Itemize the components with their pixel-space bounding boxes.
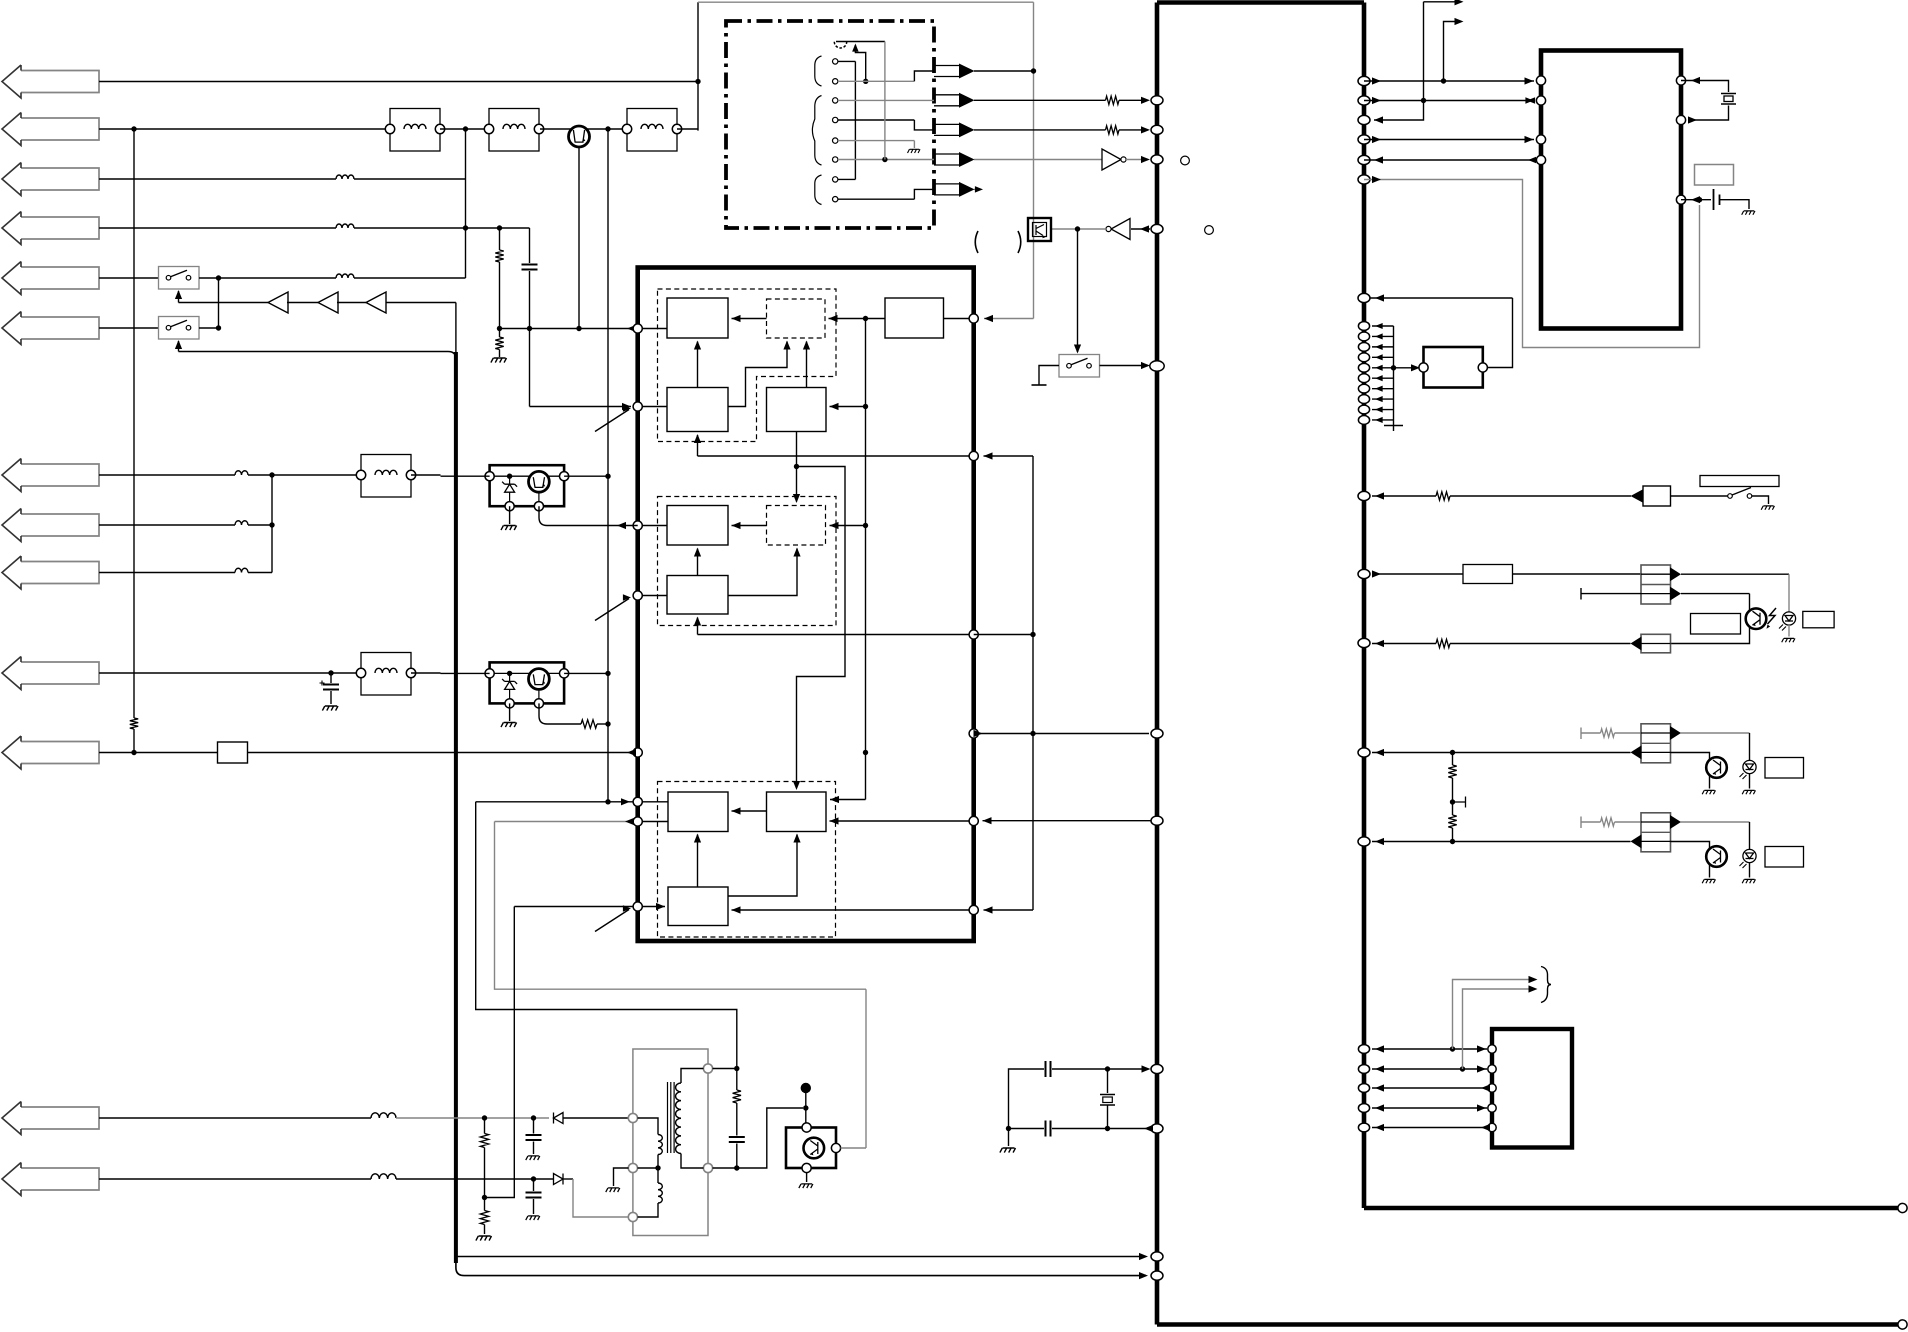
wire: [396, 1117, 549, 1119]
wire thick control bus: [454, 352, 458, 1263]
connector arrow J2: [2, 113, 99, 146]
pin U1 stack: [1358, 405, 1369, 414]
wire B4a bottom: [796, 432, 798, 467]
stub wire: [1372, 409, 1394, 411]
pin CN4: [1488, 1104, 1496, 1112]
junction: [1441, 78, 1446, 83]
ground: [1000, 1148, 1016, 1153]
ground: [1742, 790, 1755, 794]
arrowhead: [1141, 156, 1150, 163]
connector CN2 arrow out B: [1670, 587, 1681, 601]
transistor D5: [1706, 846, 1727, 867]
transistor block TR1 zener diode: [502, 482, 517, 493]
wire mute: [1372, 495, 1436, 497]
wire: [248, 474, 361, 476]
arrowhead into B3a: [694, 434, 701, 443]
wire mech pin2: [838, 80, 915, 82]
wire Q10 drop: [578, 147, 580, 329]
wire: [386, 302, 456, 304]
arrowhead: [1525, 77, 1534, 84]
arrowhead: [1375, 417, 1383, 423]
resistor R7: [1436, 639, 1450, 647]
tick: [1453, 797, 1466, 808]
block B3c: [668, 887, 728, 926]
wire: [677, 128, 698, 130]
connector D5 divider: [1641, 831, 1671, 833]
wire: [529, 271, 531, 329]
transistor D4: [1706, 757, 1727, 778]
connector arrow J11: [2, 736, 99, 769]
arrowhead: [974, 730, 983, 737]
wire: [736, 1144, 738, 1169]
wire stub: [975, 188, 980, 190]
pin U1-8: [1358, 569, 1370, 578]
wire: [354, 178, 466, 180]
wire gray top bus: [698, 1, 1034, 3]
arrowhead: [694, 548, 701, 557]
arrowhead: [1375, 344, 1383, 350]
inductor L5: [336, 274, 354, 278]
inductor L8: [235, 521, 248, 525]
wire B3c->B1c: [697, 835, 699, 888]
crystal X1: [1721, 94, 1736, 105]
pin U1-39: [1358, 96, 1370, 105]
pin U1-11: [1358, 837, 1370, 846]
wire: [133, 729, 135, 753]
transistor block TR1 body: [490, 465, 564, 506]
pin TR3 e: [802, 1163, 811, 1172]
wire from pin: [1131, 228, 1150, 230]
wire P8->B3c: [638, 906, 665, 908]
junction: [1697, 197, 1702, 202]
wire mech pin5: [838, 140, 915, 142]
ground: [1742, 211, 1755, 215]
pin FB2 in: [1419, 363, 1428, 372]
wire: [1100, 365, 1149, 367]
filter FL5: [361, 653, 411, 696]
wire P6->B1c: [638, 801, 668, 803]
wire net A4: [99, 227, 336, 229]
tick: [1580, 588, 1582, 600]
wire TR2->x608: [564, 672, 608, 674]
pin U1-2: [1151, 125, 1163, 134]
wire net A11: [99, 752, 218, 754]
wire Q4->U1: [974, 733, 1149, 735]
connector arrow J9: [2, 556, 99, 589]
connector D4 arrow out: [1670, 726, 1681, 740]
arrowhead: [793, 834, 800, 843]
transistor block TR1 junction: [507, 474, 512, 479]
arrowhead SW1 control: [175, 290, 182, 299]
wire: [484, 1225, 486, 1235]
wire SW2 control: [178, 341, 180, 352]
transistor block TR2 transistor: [529, 669, 550, 690]
stub wire: [1372, 419, 1394, 421]
wire B3c->B2c: [728, 835, 797, 897]
wire step to out1: [914, 71, 934, 81]
arrowhead at P5: [627, 749, 636, 756]
wire mech pin1: [838, 60, 856, 62]
arrowhead: [830, 796, 839, 803]
filter FL2 terminal: [534, 124, 543, 133]
pin FB2 out: [1478, 363, 1487, 372]
switch SW4: [1728, 494, 1733, 499]
arrowhead: [1527, 97, 1535, 103]
junction: [863, 79, 868, 84]
wire primary b: [638, 1203, 659, 1217]
filter FL3 terminal: [622, 124, 631, 133]
wire P4->B3b: [638, 595, 667, 597]
pin P6: [633, 797, 642, 806]
resistor R5: [1106, 126, 1120, 134]
pin CN4: [1488, 1123, 1496, 1131]
pin P7: [633, 817, 642, 826]
wire: [1720, 200, 1750, 209]
wire D5 sense: [1372, 841, 1631, 843]
wire: [697, 435, 699, 456]
connector D5 arrow in: [1631, 834, 1642, 848]
pin P8: [633, 902, 642, 911]
wire: [354, 277, 466, 279]
capacitor C2 (polar): [323, 685, 339, 690]
pin U1 stack: [1358, 363, 1369, 372]
pin Q4: [969, 729, 978, 738]
wire to Q2: [984, 455, 1034, 457]
pin U1 stack: [1358, 322, 1369, 331]
arrowhead into IC pin: [1139, 1272, 1148, 1279]
wire: [597, 723, 608, 725]
wire B3a->B2a staircase: [728, 342, 787, 407]
filter FL3 terminal: [672, 124, 681, 133]
wire: [499, 329, 501, 338]
capacitor C3: [1714, 189, 1720, 210]
arrowhead at P1: [627, 325, 636, 332]
transistor block TR2 wire: [509, 689, 511, 703]
IC U6: [1541, 51, 1681, 329]
junction: [1075, 226, 1080, 231]
wire net A2: [99, 128, 390, 130]
wire staircase A: [797, 467, 846, 789]
transistor block TR2 internal rail: [490, 672, 564, 674]
mech pin: [833, 79, 838, 84]
arrowhead stub: [975, 186, 983, 192]
mech pin: [833, 157, 838, 162]
arrowhead: [1375, 333, 1383, 339]
wire: [396, 1178, 554, 1180]
junction: [328, 670, 333, 675]
wire P7 net: [495, 821, 634, 823]
junction: [1105, 1126, 1110, 1131]
LED D4: [1740, 760, 1757, 779]
pin U6-4: [1536, 155, 1545, 164]
junction: [216, 325, 221, 330]
inverter U5: [1111, 219, 1130, 240]
arrowhead: [1375, 354, 1383, 360]
wire: [248, 572, 272, 574]
block B3b: [667, 576, 728, 615]
arrowhead: [1141, 97, 1150, 104]
filter FL1 terminal: [435, 124, 444, 133]
arrowhead at P7: [625, 818, 634, 825]
block B1b: [667, 506, 728, 546]
wire P7->B1c: [638, 821, 668, 823]
wire net A1: [99, 81, 698, 83]
mech pin: [833, 117, 838, 122]
junction: [1030, 632, 1035, 637]
wire xtal b: [1692, 106, 1729, 121]
resistor D4: [1601, 729, 1615, 737]
pin U6-2: [1536, 96, 1545, 105]
wire: [411, 474, 441, 476]
junction: [1105, 1066, 1110, 1071]
wire switch tie: [218, 278, 220, 328]
arrowhead: [1691, 77, 1700, 84]
mech pin: [833, 177, 838, 182]
arrowhead: [1375, 294, 1384, 301]
arrowhead: [1529, 976, 1538, 983]
wire to transistor: [1671, 842, 1710, 878]
arrowhead: [1375, 396, 1383, 402]
mechanism block (cassette deck): [726, 21, 934, 228]
wire base: [841, 1147, 867, 1149]
pin U1 bottom stack: [1358, 1084, 1369, 1093]
switch SW3 contacts: [1067, 363, 1072, 368]
wire: [1788, 625, 1790, 637]
wire P8 net: [514, 906, 633, 908]
wire P6 net: [476, 801, 633, 803]
arrowhead: [1375, 323, 1383, 329]
connector D5 body: [1641, 813, 1671, 852]
pin U1-10: [1358, 748, 1370, 757]
capacitor C5: [1046, 1121, 1051, 1137]
buffer U3a: [268, 292, 288, 313]
junction: [882, 157, 887, 162]
wire bus x1033: [1032, 456, 1034, 910]
pin U1-21: [1151, 729, 1163, 738]
arrowhead: [1144, 1125, 1153, 1132]
switch SW1 contacts: [166, 275, 171, 280]
wire B5a->B2a: [829, 318, 886, 320]
wire bus x608: [607, 129, 609, 802]
transformer pin: [703, 1064, 712, 1073]
arrowhead: [984, 452, 993, 459]
paren mark: [1018, 231, 1021, 253]
wire: [287, 302, 318, 304]
arrowhead: [803, 341, 810, 350]
component box FB1: [218, 742, 248, 763]
buffer U3c: [366, 292, 386, 313]
arrowhead: [830, 522, 839, 529]
wire mech pin3: [838, 99, 934, 101]
pin U6-5: [1676, 195, 1685, 204]
wire D4 drive: [1581, 732, 1601, 734]
ground: [1702, 790, 1715, 794]
pin U1 stack: [1358, 374, 1369, 383]
pin U1-38: [1358, 115, 1370, 124]
switch SW1 body: [159, 267, 200, 290]
wire lamp A: [1372, 573, 1463, 575]
wire Q2 run: [698, 455, 974, 457]
wire into P2: [530, 406, 632, 408]
ground: [526, 1216, 540, 1220]
connector arrow J6: [2, 312, 99, 345]
wire bus B: [865, 319, 867, 800]
crystal X2: [1100, 1095, 1115, 1106]
transistor block TR3: [786, 1128, 836, 1169]
connector D5 through wire: [1641, 840, 1671, 842]
transistor Q5: [804, 1138, 825, 1159]
arrowhead: [1481, 1084, 1490, 1091]
wire fb loop side: [1488, 298, 1513, 368]
filter FL4: [361, 455, 411, 498]
pin U1 bottom stack: [1358, 1065, 1369, 1074]
wire control drop: [455, 303, 457, 353]
block B4a: [767, 388, 827, 432]
inductor L7: [235, 471, 248, 475]
wire: [913, 141, 915, 148]
connector D4 divider: [1641, 742, 1671, 744]
pin U1-7: [1358, 491, 1370, 500]
pin U1-26: [1151, 1271, 1163, 1280]
wire step to out3: [914, 120, 934, 130]
arrowhead: [1375, 365, 1383, 371]
wire net A7: [99, 474, 235, 476]
resistor R8: [1448, 765, 1456, 778]
transformer pin: [703, 1163, 712, 1172]
arrowhead: [783, 341, 790, 350]
mech output arrow: [934, 184, 959, 195]
label box: [1695, 165, 1734, 186]
wire: [1450, 643, 1631, 645]
photo interrupter PH1: [1028, 218, 1051, 241]
junction: [269, 472, 274, 477]
arrowhead: [1375, 1084, 1384, 1091]
adjust arrow shaft: [595, 910, 629, 932]
transistor block TR2 junction: [507, 671, 512, 676]
connector tab in: [1631, 489, 1644, 502]
wire TR2 resistor run: [539, 703, 581, 724]
wire to Q6: [984, 909, 1034, 911]
pin U1 bottom stack: [1358, 1104, 1369, 1113]
capacitor C4: [1046, 1061, 1051, 1077]
junction mech out 1: [1031, 68, 1036, 73]
block B1a: [667, 298, 728, 338]
wire: [411, 672, 441, 674]
pin rail B end: [1898, 1320, 1907, 1329]
connector D4 through wire: [1641, 732, 1671, 734]
wire: [1126, 159, 1148, 161]
brace group3: [815, 175, 822, 205]
arrowhead: [1528, 157, 1536, 163]
wire step to out5: [914, 189, 934, 199]
arrowhead: [1375, 749, 1384, 756]
wire U1->IC2 c: [1364, 100, 1534, 102]
tick: [1580, 728, 1582, 740]
inductor L12: [371, 1113, 396, 1118]
junction: [1460, 1066, 1465, 1071]
wire T1 out: [713, 1108, 804, 1168]
wire: [330, 673, 332, 683]
resistor R9: [1448, 815, 1456, 828]
transistor Q10 (in-line): [569, 126, 590, 147]
resistor R6: [1436, 492, 1450, 500]
junction: [527, 326, 532, 331]
wire B4a->B2a: [806, 342, 808, 388]
transistor block TR1 pin: [560, 472, 569, 481]
transistor block TR1 transistor: [529, 471, 550, 492]
wire net to IC: [456, 1256, 1146, 1258]
filter FL5 coil: [375, 668, 397, 673]
wire gray drop x1033: [1033, 2, 1035, 318]
wire busB->B2b: [830, 525, 866, 527]
arrowhead: [694, 341, 701, 350]
filter FL4 terminal: [406, 470, 415, 479]
block B1c: [668, 792, 728, 832]
mech pin: [833, 98, 838, 103]
wire stack bus: [1393, 326, 1395, 426]
capacitor C8: [729, 1137, 745, 1142]
wire osc a: [1052, 1068, 1149, 1070]
junction: [482, 1115, 487, 1120]
wire D4 sense: [1372, 752, 1631, 754]
connector D4 through wire: [1641, 751, 1671, 753]
adjust arrowhead: [623, 905, 631, 911]
transformer T1 frame: [633, 1049, 708, 1236]
wire gray loop to IC2 cap: [1364, 180, 1700, 348]
inductor L13: [371, 1174, 396, 1179]
block FB2: [1424, 347, 1483, 388]
wire mech out4: [974, 159, 1102, 161]
arrowhead into IC pin: [1139, 1253, 1148, 1260]
wire U1->Q5: [983, 820, 1158, 822]
wire osc b: [1009, 1128, 1045, 1130]
filter FL3: [627, 109, 677, 152]
wire: [199, 277, 336, 279]
pin U1-37: [1358, 135, 1370, 144]
pin U1-4: [1151, 224, 1163, 233]
wire gray head drop: [884, 42, 886, 160]
arrowhead: [1375, 838, 1384, 845]
junction x134: [131, 126, 136, 131]
wire: [736, 1103, 738, 1136]
wire riser x698: [697, 2, 699, 130]
wire control bus tail: [456, 1263, 1146, 1276]
inductor L4: [336, 224, 354, 228]
wire Q6 run: [732, 909, 974, 911]
wire: [499, 350, 501, 358]
arrowhead: [732, 315, 741, 322]
wire FL4->TR1: [441, 475, 490, 477]
label box: [1765, 758, 1804, 779]
block B5a: [885, 298, 944, 338]
arrowhead: [1375, 1124, 1384, 1131]
arrowhead: [1375, 386, 1383, 392]
pin TR3 c: [802, 1123, 811, 1132]
arrowhead: [983, 817, 992, 824]
wire branch up b: [1444, 22, 1462, 82]
wire: [1452, 828, 1454, 842]
label box: [1765, 847, 1804, 868]
wire: [1372, 643, 1436, 645]
stub wire: [1372, 356, 1394, 358]
transistor block TR1 pin: [534, 502, 543, 511]
arrowhead into B3b: [694, 617, 701, 626]
mech output arrow: [934, 66, 959, 77]
filter FL1 coil: [404, 124, 426, 129]
arrowhead: [1374, 116, 1383, 123]
arrowhead: [1375, 1104, 1384, 1111]
wire secondary bottom: [681, 1154, 704, 1169]
